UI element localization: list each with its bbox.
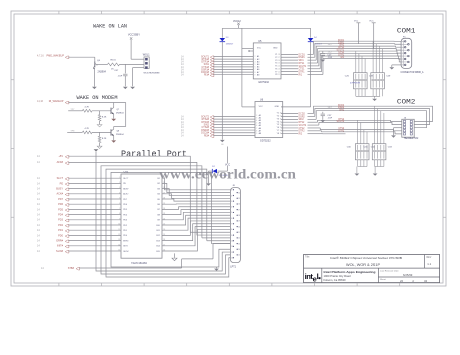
svg-text:GND: GND xyxy=(273,47,278,49)
svg-text:DSR1: DSR1 xyxy=(299,57,306,59)
svg-text:l: l xyxy=(317,272,319,281)
net label +5V row xyxy=(37,155,63,158)
net label PD1 xyxy=(37,229,64,232)
ground xyxy=(130,87,135,89)
wire cap pack D leads xyxy=(375,106,384,144)
net label PD5 xyxy=(37,208,64,211)
transistor Q7 2N3904 xyxy=(111,105,124,114)
wire bottom bundle xyxy=(96,152,230,271)
svg-text:PD3: PD3 xyxy=(58,219,63,222)
wire COM2 to header xyxy=(346,120,402,121)
wire PD5 to U31 xyxy=(68,208,121,210)
svg-text:2N3904: 2N3904 xyxy=(116,134,124,136)
net label SLCT xyxy=(37,177,63,180)
off-page connector DTR2# xyxy=(210,121,214,124)
resistor R134 4.7K xyxy=(82,128,92,134)
net label DSR1# xyxy=(181,68,210,71)
wire U5 out CTS1 xyxy=(281,54,346,69)
wire DCD2# to U6 xyxy=(213,132,255,134)
wire ground loop xyxy=(111,172,230,267)
svg-text:12: 12 xyxy=(231,252,233,254)
wire U5 out SIN1 xyxy=(281,46,346,60)
svg-text:RI_WAKEUP: RI_WAKEUP xyxy=(49,100,64,103)
off-page connector RTS1# xyxy=(210,59,214,62)
wire R134 to Q8 xyxy=(92,131,111,133)
svg-text:PD4: PD4 xyxy=(58,214,63,217)
svg-text:74LVC161284: 74LVC161284 xyxy=(131,262,147,265)
svg-text:SOUT1: SOUT1 xyxy=(299,66,307,68)
wire VCC rail xyxy=(222,27,310,29)
svg-text:4: 4 xyxy=(231,207,232,209)
svg-text:GND: GND xyxy=(275,106,280,108)
svg-text:9: 9 xyxy=(256,133,257,135)
wire U6 out CTS2 xyxy=(281,128,346,130)
wire RI2# to U6 xyxy=(213,135,255,137)
svg-text:RI2#: RI2# xyxy=(204,134,210,137)
wire SOUT2 to U6 xyxy=(213,115,255,117)
title block address xyxy=(324,270,376,282)
wire U5 out DCD1 xyxy=(281,41,346,54)
svg-text:2: 2 xyxy=(231,195,232,197)
wire U31 pin to LPT1 xyxy=(162,221,230,235)
wire U6 out RTS2 xyxy=(281,120,346,122)
off-page connector CTS2# xyxy=(210,127,214,130)
wire COM2 to header xyxy=(346,123,402,125)
svg-text:23: 23 xyxy=(238,243,240,245)
svg-text:9: 9 xyxy=(231,235,232,237)
svg-text:4.7K: 4.7K xyxy=(85,107,90,109)
resistor R135 8.2K xyxy=(98,132,107,142)
wire WOL1 pin3 to ground xyxy=(133,68,144,87)
capacitor pack C26 xyxy=(345,73,374,89)
wire cap pack C bottom xyxy=(357,160,367,173)
svg-text:6/25/99: 6/25/99 xyxy=(403,273,413,277)
svg-text:6: 6 xyxy=(231,218,232,220)
svg-text:SOUT2: SOUT2 xyxy=(299,125,307,127)
svg-text:22: 22 xyxy=(400,279,404,283)
svg-text:SLIN#: SLIN# xyxy=(123,251,129,253)
svg-text:1900 Prairie City Road: 1900 Prairie City Road xyxy=(324,274,352,278)
svg-text:GD75232: GD75232 xyxy=(258,81,269,84)
svg-text:14: 14 xyxy=(238,192,240,194)
wire AFD# bundle xyxy=(68,162,230,235)
svg-text:2N3904: 2N3904 xyxy=(98,71,107,74)
wire PME to Q6 xyxy=(68,57,95,61)
svg-text:PD2: PD2 xyxy=(58,224,63,227)
svg-text:1N5817: 1N5817 xyxy=(226,44,234,46)
net label STB# xyxy=(41,267,75,270)
svg-text:8: 8 xyxy=(231,229,232,231)
svg-text:PD0: PD0 xyxy=(58,234,63,237)
ground xyxy=(111,140,116,142)
net label PD6 xyxy=(37,203,64,206)
connector WOL1 header 3pos xyxy=(143,53,160,74)
svg-text:GD75232: GD75232 xyxy=(260,140,271,143)
off-page connector ERR# xyxy=(65,240,69,243)
diode D4 1N5817 xyxy=(308,37,323,46)
svg-text:10: 10 xyxy=(231,241,233,243)
svg-text:18: 18 xyxy=(278,54,280,56)
wire U31 pin to LPT1 xyxy=(162,207,230,210)
wire RTS1# to U5 xyxy=(213,58,253,60)
svg-text:Intel® 810E2 Chipset Universal: Intel® 810E2 Chipset Universal Socket 37… xyxy=(330,256,402,260)
wire cap pack A leads xyxy=(356,51,365,73)
svg-text:.1UF: .1UF xyxy=(327,57,332,59)
svg-text:13: 13 xyxy=(231,258,233,260)
svg-text:www.eeworld.com.cn: www.eeworld.com.cn xyxy=(159,167,297,182)
svg-text:4: 4 xyxy=(119,192,120,194)
capacitor C37 .1UF xyxy=(321,112,333,120)
svg-text:7: 7 xyxy=(231,224,232,226)
svg-text:+5V: +5V xyxy=(58,155,63,158)
power VCC stem xyxy=(227,147,229,164)
wire PD3 to U31 xyxy=(68,219,121,221)
wire cap pack C leads xyxy=(358,120,367,143)
net label DCD1# xyxy=(181,71,210,74)
wire header gnd xyxy=(394,128,402,136)
off-page connector INIT# xyxy=(65,245,69,248)
wire to COM1 DB9 xyxy=(346,54,402,57)
svg-text:VCC3SBY: VCC3SBY xyxy=(128,32,140,36)
wire RI1# to U5 xyxy=(213,74,253,76)
svg-text:WAKE ON MODEM: WAKE ON MODEM xyxy=(77,95,118,101)
net label CTS1# xyxy=(181,66,210,69)
wire SLCT to U31 xyxy=(68,177,121,179)
svg-text:RTS2: RTS2 xyxy=(299,122,306,124)
svg-text:16: 16 xyxy=(238,204,240,206)
svg-text:4,7,16: 4,7,16 xyxy=(37,55,44,58)
net label PD7 xyxy=(37,198,64,201)
capacitor pack xyxy=(371,73,391,89)
wire +5V bundle xyxy=(68,156,230,232)
wire U5 out RTS1 xyxy=(281,49,346,63)
wire gnd stub xyxy=(391,65,393,67)
wire PE to U31 xyxy=(68,182,121,184)
off-page connector DTR1# xyxy=(210,61,214,64)
off-page connector STB# xyxy=(76,267,80,270)
wire rail to D3 xyxy=(221,28,223,38)
wire U6 out DSR2 xyxy=(281,109,346,117)
wire shield ground stub xyxy=(216,267,218,268)
net label PD3 xyxy=(37,219,64,222)
wire to COM1 DB9 xyxy=(346,49,402,51)
wire to COM1 DB9 xyxy=(346,40,402,42)
connector LPT1 DB25 xyxy=(230,185,240,268)
net label RTS2# xyxy=(181,118,210,121)
wire U31 pin to LPT1 xyxy=(162,189,230,196)
ground xyxy=(94,149,99,151)
off-page connector SIN1 xyxy=(210,64,214,67)
wire SOUT1 to U5 xyxy=(213,56,253,58)
off-page connector PE xyxy=(65,183,69,186)
svg-text:15: 15 xyxy=(238,198,240,200)
wire Q6 emitter to ground xyxy=(93,68,95,86)
wire U5 out DTR1 xyxy=(281,56,346,72)
ground xyxy=(97,146,102,148)
off-page connector PD4 xyxy=(65,214,69,217)
svg-text:17: 17 xyxy=(238,209,240,211)
net label DTR2# xyxy=(181,121,210,124)
wire PD2 to U31 xyxy=(68,224,121,226)
net label SOUT1 xyxy=(181,55,210,58)
net label RTS1# xyxy=(181,58,210,61)
wire cap pack B leads xyxy=(373,41,382,72)
wire DCD1# to U5 xyxy=(213,71,253,73)
wire PD6 to U31 xyxy=(68,203,121,205)
wire U31 pin to LPT1 xyxy=(162,224,230,241)
svg-text:22: 22 xyxy=(238,238,240,240)
wire cap pack D bottom xyxy=(375,160,384,173)
wire U5 pin2 stub xyxy=(248,50,253,52)
wire to COM1 DB9 xyxy=(346,56,402,59)
ground xyxy=(206,183,211,185)
wire U6 out SOUT2 xyxy=(281,123,346,126)
svg-text:5: 5 xyxy=(231,212,232,214)
wire U6 out DCD2 xyxy=(281,106,346,113)
svg-text:12: 12 xyxy=(278,71,280,73)
svg-text:1: 1 xyxy=(231,190,232,192)
wire R132 to Q7 xyxy=(92,110,111,112)
svg-text:14,16: 14,16 xyxy=(37,100,44,103)
svg-text:LPT1: LPT1 xyxy=(230,265,236,268)
wire U6 out SIN2 xyxy=(281,111,346,120)
svg-text:20: 20 xyxy=(238,226,240,228)
net label ACK# xyxy=(37,193,64,196)
wire VCC to D2 xyxy=(218,166,228,171)
ground xyxy=(320,120,325,122)
off-page connector RTS2# xyxy=(210,119,214,122)
wire U5 out SOUT1 xyxy=(281,51,346,66)
wire U31 pin to LPT1 xyxy=(162,212,230,219)
svg-text:.1UF: .1UF xyxy=(118,75,123,77)
svg-text:U31: U31 xyxy=(124,170,129,174)
svg-text:.1UF: .1UF xyxy=(327,118,332,120)
wire U31 pin to LPT1 xyxy=(162,183,230,192)
net label AFD# row xyxy=(37,161,64,164)
svg-text:SIN1: SIN1 xyxy=(299,60,305,62)
svg-text:6: 6 xyxy=(119,203,120,205)
wire U31 gnd stub xyxy=(174,253,176,258)
net label DTR1# xyxy=(181,61,210,64)
wire U6 top stub xyxy=(242,106,255,108)
svg-text:9: 9 xyxy=(119,218,120,220)
svg-text:8.2K: 8.2K xyxy=(102,138,107,140)
svg-text:13: 13 xyxy=(278,68,280,70)
svg-text:2: 2 xyxy=(119,182,120,184)
svg-text:8.2K: 8.2K xyxy=(102,116,107,118)
net label ERR# xyxy=(37,240,64,243)
wire RTS2# to U6 xyxy=(213,118,255,120)
off-page connector DSR2# xyxy=(210,129,214,132)
transistor Q6 2N3904 xyxy=(93,60,106,74)
svg-text:VCC: VCC xyxy=(259,106,264,108)
border frame xyxy=(11,11,446,286)
svg-text:PME_WAKEUP: PME_WAKEUP xyxy=(46,55,64,58)
wire RI_WAKEUP node xyxy=(68,103,125,129)
wire PD0 to U31 xyxy=(68,234,121,236)
title block revision xyxy=(380,269,428,283)
off-page connector CTS1# xyxy=(210,66,214,69)
svg-text:RTS1: RTS1 xyxy=(299,63,306,65)
wire DTR2# to U6 xyxy=(213,121,255,123)
ground xyxy=(373,174,378,176)
svg-text:3: 3 xyxy=(231,201,232,203)
wire COM2 to header xyxy=(346,130,402,131)
wire ground loop xyxy=(106,169,230,277)
off-page connector PD7 xyxy=(65,198,69,201)
wire PD4 to U31 xyxy=(68,214,121,216)
svg-text:ACK#: ACK# xyxy=(56,193,63,196)
wire U5 out RI1 xyxy=(281,58,346,74)
wire DSR1# to U5 xyxy=(213,69,253,71)
off-page connector PD0 xyxy=(65,235,69,238)
svg-text:10: 10 xyxy=(118,224,120,226)
off-page connector ACK# xyxy=(65,193,69,196)
wire COM2 to header xyxy=(346,132,402,134)
wire BUSY to U31 xyxy=(68,188,121,190)
ground xyxy=(372,99,377,101)
net label SOUT2 xyxy=(181,115,210,118)
svg-text:R131: R131 xyxy=(111,60,117,62)
svg-text:SIN2: SIN2 xyxy=(339,109,345,111)
svg-text:15: 15 xyxy=(278,63,280,65)
resistor R131 1K xyxy=(97,60,119,71)
ic U31 74LVC161284 xyxy=(118,170,165,265)
svg-text:16: 16 xyxy=(278,60,280,62)
wire INIT# to U31 xyxy=(68,245,121,247)
wire U6 out RI2 xyxy=(281,133,346,135)
wire PD1 to U31 xyxy=(68,229,121,231)
off-page connector SOUT1 xyxy=(210,56,214,59)
wire ground loop xyxy=(101,166,230,274)
svg-text:47PF/X7R: 47PF/X7R xyxy=(350,82,361,84)
wire DTR1# to U5 xyxy=(213,61,253,63)
svg-text:DTR2: DTR2 xyxy=(338,130,345,132)
wire SIN1 to U5 xyxy=(213,63,253,65)
svg-text:17: 17 xyxy=(278,57,280,59)
svg-text:COM1: COM1 xyxy=(397,27,416,34)
svg-text:2N3904: 2N3904 xyxy=(116,112,124,114)
svg-text:Parallel Port: Parallel Port xyxy=(121,149,187,159)
svg-text:PD6: PD6 xyxy=(58,203,63,206)
svg-text:5: 5 xyxy=(119,198,120,200)
svg-text:SLIN#: SLIN# xyxy=(56,250,64,253)
ground xyxy=(111,119,116,121)
wire base stage1 xyxy=(68,110,82,112)
svg-text:PD7: PD7 xyxy=(58,198,63,201)
capacitor C27 .1UF xyxy=(321,51,333,59)
off-page connector RI_WAKEUP xyxy=(65,101,69,104)
wire cap pack bottoms to ground xyxy=(356,89,383,99)
wire COM2 wrap xyxy=(346,106,433,121)
svg-text:WOL1: WOL1 xyxy=(143,53,150,56)
svg-text:3: 3 xyxy=(119,187,120,189)
ground xyxy=(92,87,97,89)
wire CTS2# to U6 xyxy=(213,126,255,128)
svg-text:Intel Platform Apps Engineerin: Intel Platform Apps Engineering xyxy=(324,270,376,274)
wire D4 rail down xyxy=(281,42,311,107)
svg-text:Folsom, Ca 95630: Folsom, Ca 95630 xyxy=(324,278,346,282)
ground xyxy=(320,60,325,62)
svg-text:SLCT: SLCT xyxy=(123,178,129,180)
wire Q7 emitter xyxy=(113,114,115,118)
off-page connector PD1 xyxy=(65,230,69,233)
ground xyxy=(172,258,177,261)
svg-text:25: 25 xyxy=(238,255,240,257)
svg-text:Last Revision Date:: Last Revision Date: xyxy=(380,269,399,272)
svg-text:12: 12 xyxy=(118,234,120,236)
wire STB# xyxy=(79,244,230,269)
net label DCD2# xyxy=(181,132,210,135)
diode D3 1N5817 xyxy=(220,37,235,46)
svg-text:VCC: VCC xyxy=(369,20,374,22)
svg-text:CTS1: CTS1 xyxy=(299,69,306,71)
wire COM2 wrap xyxy=(346,109,430,125)
off-page connector RI1# xyxy=(210,74,214,77)
svg-text:1.1: 1.1 xyxy=(427,262,431,266)
svg-text:BUSY: BUSY xyxy=(123,188,129,190)
svg-text:21: 21 xyxy=(238,232,240,234)
svg-text:VCC12: VCC12 xyxy=(233,20,241,23)
svg-text:of: of xyxy=(412,280,414,283)
off-page connector RI2# xyxy=(210,135,214,138)
wire R135 to ground xyxy=(99,143,101,146)
wire U31 pin to LPT1 xyxy=(162,194,230,198)
svg-text:WOL/HDR/2MM: WOL/HDR/2MM xyxy=(144,72,160,74)
wire SLIN# to U31 xyxy=(68,250,121,252)
svg-text:DCD1: DCD1 xyxy=(299,54,306,56)
svg-text:14: 14 xyxy=(278,66,280,68)
wire rail to D4 xyxy=(310,28,312,38)
net label PD2 xyxy=(37,224,64,227)
svg-text:18: 18 xyxy=(238,215,240,217)
wire to COM1 DB9 xyxy=(346,46,402,47)
off-page connector PD2 xyxy=(65,224,69,227)
ic U5 GD75232 xyxy=(253,40,281,84)
wire to COM1 DB9 xyxy=(346,43,402,46)
wire U31 pin to LPT1 xyxy=(162,199,230,201)
svg-text:24: 24 xyxy=(238,249,240,251)
svg-text:8: 8 xyxy=(119,213,120,215)
ground xyxy=(123,87,128,89)
svg-text:PD5: PD5 xyxy=(58,208,63,211)
off-page connector SLIN# xyxy=(65,250,69,253)
wire D2 to ground xyxy=(209,171,213,183)
svg-text:PE: PE xyxy=(60,182,64,185)
svg-text:11: 11 xyxy=(231,246,233,248)
svg-text:VCC: VCC xyxy=(354,20,359,22)
ground xyxy=(355,174,360,176)
svg-text:REV: REV xyxy=(427,257,432,259)
wire DSR2# to U6 xyxy=(213,129,255,131)
svg-text:1: 1 xyxy=(119,177,120,179)
svg-text:BUSY: BUSY xyxy=(56,188,63,191)
wire U31 pin to LPT1 xyxy=(162,210,230,215)
svg-text:13: 13 xyxy=(118,239,120,241)
net label SIN2 xyxy=(181,123,210,126)
net label INIT# xyxy=(37,245,64,248)
off-page connector BUSY xyxy=(65,188,69,191)
svg-text:RI1#: RI1# xyxy=(204,74,210,77)
wire PD7 to U31 xyxy=(68,198,121,200)
svg-text:19: 19 xyxy=(238,221,240,223)
off-page connector SLCT xyxy=(65,178,69,181)
svg-text:SIN2: SIN2 xyxy=(299,119,305,121)
wire to COM1 DB9 xyxy=(346,58,402,61)
ic U6 GD75232 xyxy=(255,99,283,143)
ground xyxy=(220,140,225,146)
net label RI2# xyxy=(181,134,210,137)
